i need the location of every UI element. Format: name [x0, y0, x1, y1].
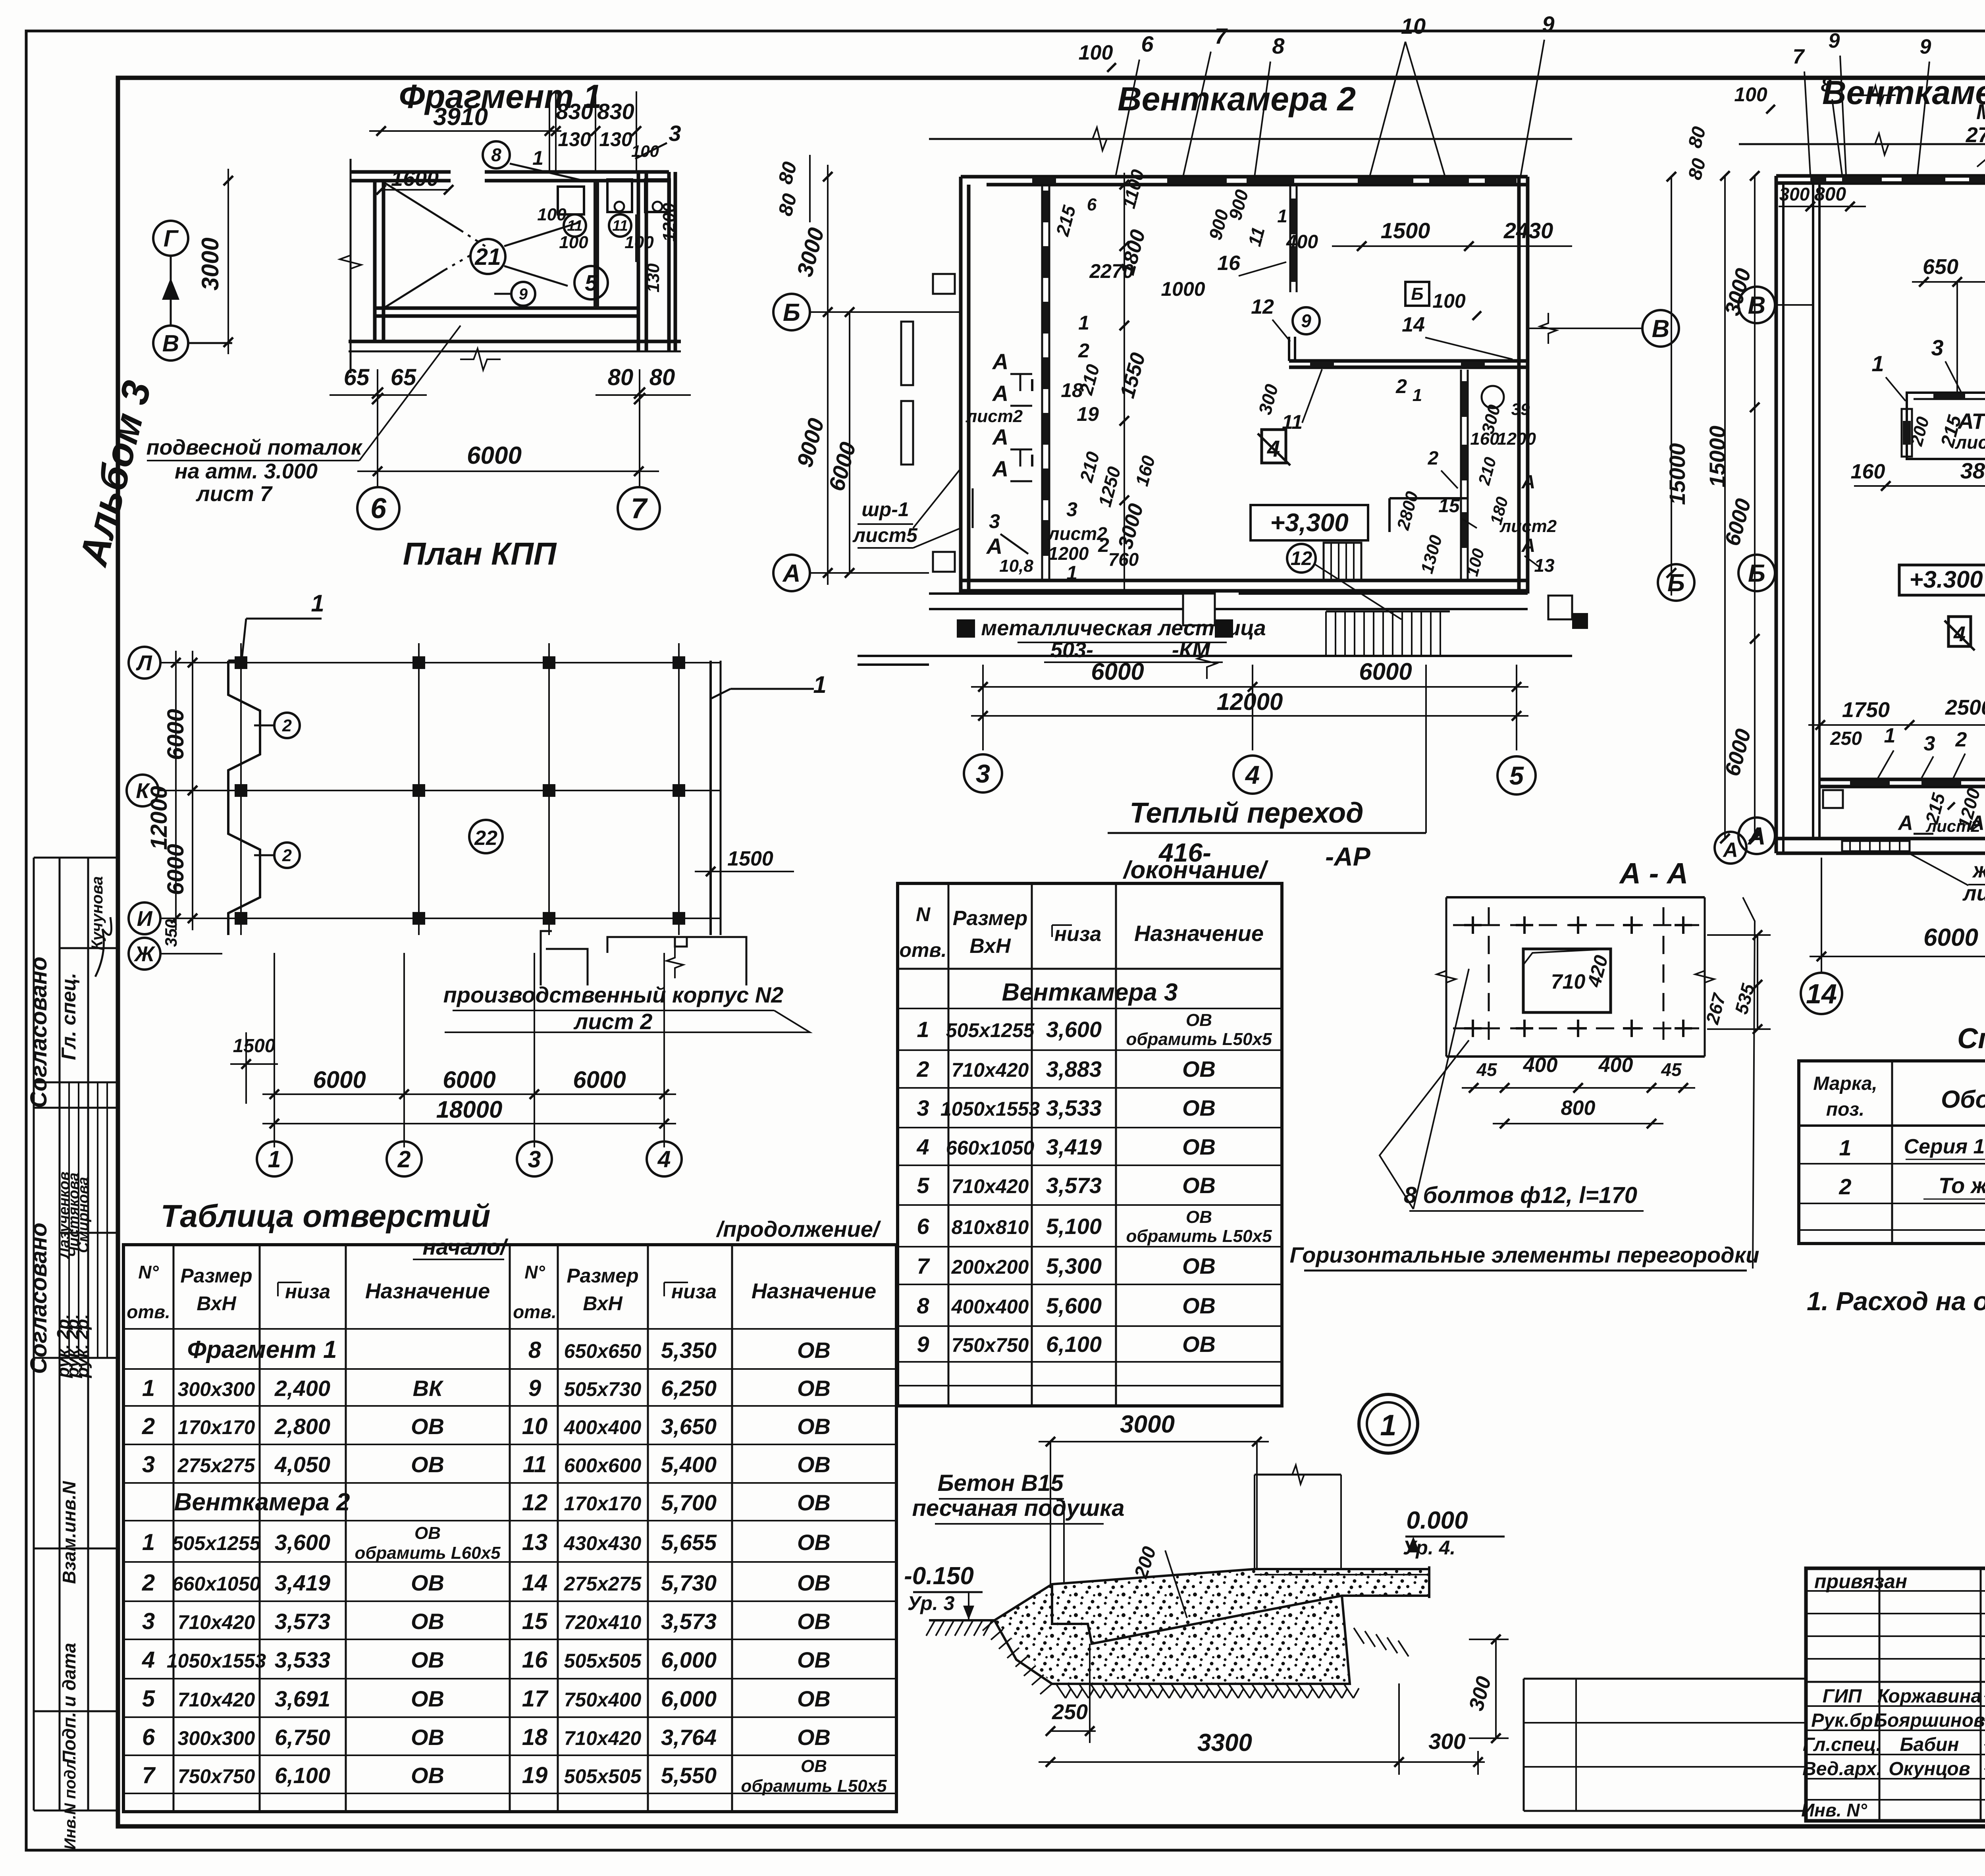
svg-text:Теплый переход: Теплый переход [1129, 797, 1363, 829]
svg-text:710х420: 710х420 [178, 1611, 255, 1633]
svg-text:Б: Б [1748, 560, 1765, 587]
svg-text:2430: 2430 [1503, 218, 1553, 243]
svg-text:2: 2 [1428, 448, 1439, 469]
svg-text:1200: 1200 [1048, 543, 1089, 564]
svg-text:1: 1 [1413, 386, 1422, 405]
svg-text:обрамить L50х5: обрамить L50х5 [1126, 1030, 1272, 1049]
foundation right soil hatch [1354, 1628, 1364, 1644]
VK2 dims 1500 2430 [1332, 245, 1572, 247]
svg-text:5,400: 5,400 [661, 1452, 717, 1477]
svg-text:3: 3 [917, 1095, 929, 1120]
svg-text:3,883: 3,883 [1046, 1057, 1102, 1082]
svg-text:Бояршинов: Бояршинов [1874, 1710, 1985, 1731]
svg-text:начало/: начало/ [422, 1234, 509, 1259]
svg-text:лист2: лист2 [966, 407, 1023, 426]
Plan KPP column squares [235, 656, 247, 669]
VK2 left wall [959, 177, 963, 594]
svg-text:11: 11 [523, 1452, 547, 1477]
VK2 axis В right [1642, 310, 1679, 347]
svg-text:на атм. 3.000: на атм. 3.000 [175, 459, 318, 483]
middle table grid [898, 883, 1282, 1406]
svg-text:ВхН: ВхН [583, 1292, 622, 1315]
svg-text:Инв. N°: Инв. N° [1801, 1800, 1867, 1820]
svg-text:8: 8 [917, 1293, 929, 1318]
svg-text:лист 6: лист 6 [1962, 881, 1985, 905]
svg-text:песчаная подушка: песчаная подушка [912, 1495, 1125, 1521]
svg-text:1500: 1500 [233, 1035, 276, 1057]
svg-text:15000: 15000 [1705, 426, 1730, 488]
svg-text:ОВ: ОВ [411, 1763, 444, 1788]
VK2 right outer wall boxes [1548, 596, 1572, 619]
svg-text:В: В [1748, 292, 1766, 319]
svg-text:1600: 1600 [391, 167, 439, 191]
svg-text:Венткамера 2: Венткамера 2 [1118, 80, 1356, 118]
svg-text:750х400: 750х400 [564, 1689, 642, 1711]
svg-text:8: 8 [1272, 33, 1285, 58]
svg-text:0.000: 0.000 [1406, 1507, 1468, 1534]
svg-text:Гл. спец.: Гл. спец. [58, 973, 80, 1060]
Plan KPP dim 1500 right [695, 871, 794, 872]
svg-text:4: 4 [657, 1146, 671, 1172]
VK2 left axis dim chain [827, 165, 829, 324]
svg-text:12000: 12000 [1217, 688, 1283, 715]
svg-text:300: 300 [1428, 1729, 1465, 1754]
svg-text:Венткамера 3: Венткамера 3 [1822, 74, 1985, 111]
svg-text:710х420: 710х420 [952, 1059, 1029, 1081]
svg-text:2: 2 [142, 1570, 155, 1596]
Fragment1 circle 21 [470, 239, 505, 274]
svg-text:1500: 1500 [1381, 218, 1430, 243]
svg-text:11: 11 [612, 218, 628, 234]
left margin stamp strip [33, 858, 35, 1810]
svg-text:5,300: 5,300 [1046, 1253, 1102, 1278]
Plan KPP axis lines up [274, 953, 275, 1068]
svg-text:Размер: Размер [567, 1265, 638, 1287]
svg-text:-АР: -АР [1325, 842, 1371, 871]
svg-text:ОВ: ОВ [411, 1570, 444, 1595]
svg-text:Вед.арх.: Вед.арх. [1802, 1758, 1882, 1780]
svg-text:Бетон В15: Бетон В15 [937, 1470, 1064, 1496]
svg-text:1: 1 [1871, 351, 1884, 376]
svg-text:ОВ: ОВ [1182, 1293, 1216, 1318]
svg-text:10: 10 [522, 1413, 548, 1439]
svg-text:ОВ: ОВ [411, 1686, 444, 1711]
svg-text:ОВ: ОВ [797, 1338, 831, 1363]
svg-text:130: 130 [599, 128, 632, 150]
svg-text:6000: 6000 [313, 1066, 366, 1093]
svg-text:1: 1 [1884, 724, 1896, 747]
svg-text:170х170: 170х170 [564, 1492, 642, 1515]
svg-text:17: 17 [522, 1686, 549, 1712]
svg-text:2: 2 [1098, 534, 1109, 556]
svg-text:А - А: А - А [1619, 857, 1688, 890]
VK3 top wall [1776, 174, 1985, 178]
VK2 stairs small top [1324, 543, 1361, 580]
svg-text:План КПП: План КПП [403, 536, 557, 571]
svg-text:18: 18 [522, 1724, 548, 1750]
Plan KPP grid horizontal lines [160, 662, 721, 663]
A-A axis circle A top [1715, 832, 1746, 864]
svg-text:170х170: 170х170 [178, 1416, 255, 1438]
node circle 1 [1359, 1394, 1418, 1453]
svg-text:низа: низа [671, 1280, 717, 1303]
svg-text:5,600: 5,600 [1046, 1293, 1102, 1318]
svg-text:Венткамера 2: Венткамера 2 [174, 1488, 350, 1516]
svg-text:В: В [162, 330, 179, 357]
svg-text:6,250: 6,250 [661, 1376, 717, 1401]
svg-text:1500: 1500 [727, 847, 773, 870]
VK3 dim 650 2850 [1912, 281, 1985, 283]
svg-text:100: 100 [1734, 83, 1767, 106]
svg-text:5,730: 5,730 [661, 1570, 717, 1595]
svg-text:830: 830 [597, 99, 634, 124]
svg-text:/продолжение/: /продолжение/ [716, 1217, 881, 1242]
svg-text:3,419: 3,419 [1046, 1134, 1102, 1159]
VK3 axes 14 15 bottom [1821, 858, 1822, 972]
svg-text:1: 1 [917, 1017, 929, 1042]
VK2 axis circles 3 4 5 [964, 754, 1002, 792]
VK2 bottom wall [961, 579, 1528, 582]
svg-text:710х420: 710х420 [178, 1689, 255, 1711]
svg-text:3,573: 3,573 [661, 1609, 717, 1634]
VK2 circle 9 [1293, 307, 1320, 334]
svg-text:3,691: 3,691 [275, 1686, 330, 1711]
VK2 wall boxes on left exterior [933, 274, 955, 294]
VK2 inner partition hatched left [1041, 185, 1043, 580]
A-A inner opening rect [1523, 949, 1611, 1012]
foundation soil hatch bottom [1056, 1684, 1066, 1698]
VK3 dim 160 3800 [1854, 485, 1985, 487]
svg-text:ВхН: ВхН [197, 1292, 236, 1315]
svg-text:3000: 3000 [197, 237, 224, 290]
svg-text:ОВ: ОВ [797, 1686, 831, 1711]
svg-text:505х1255: 505х1255 [946, 1019, 1035, 1041]
svg-text:А: А [992, 424, 1008, 449]
svg-text:130: 130 [644, 263, 663, 293]
title block main outline [1806, 1568, 1985, 1821]
svg-text:80: 80 [608, 364, 634, 390]
svg-text:100: 100 [624, 233, 654, 252]
svg-text:7: 7 [1793, 45, 1805, 68]
svg-text:45: 45 [1476, 1059, 1497, 1080]
svg-text:привязан: привязан [1814, 1570, 1907, 1593]
svg-text:обрамить L50х5: обрамить L50х5 [1126, 1226, 1272, 1246]
svg-text:3,764: 3,764 [661, 1725, 717, 1750]
svg-text:А: А [992, 381, 1008, 406]
svg-text:Инв.N подл.: Инв.N подл. [62, 1755, 79, 1850]
svg-text:1: 1 [813, 671, 826, 698]
svg-text:10,8: 10,8 [999, 556, 1033, 576]
svg-text:5: 5 [917, 1173, 929, 1198]
VK2 top wall opening marks [1032, 177, 1056, 184]
svg-text:Л: Л [135, 651, 152, 675]
Fragment1 leader 3 [635, 143, 667, 159]
svg-text:7: 7 [917, 1253, 930, 1278]
VK2 box Б [1405, 282, 1429, 306]
Fragment1 partition hatched [594, 181, 599, 308]
svg-text:отв.: отв. [513, 1301, 557, 1322]
svg-text:В: В [1652, 315, 1670, 343]
svg-text:5,350: 5,350 [661, 1338, 717, 1363]
Plan KPP axis circle И [129, 902, 160, 934]
Fragment1 circle 9 [511, 282, 535, 306]
svg-text:2,400: 2,400 [274, 1376, 330, 1401]
svg-text:750х750: 750х750 [952, 1334, 1029, 1356]
svg-text:13: 13 [522, 1529, 548, 1555]
A-A dashed inner lines [1453, 924, 1699, 926]
svg-text:1000: 1000 [1161, 278, 1205, 300]
svg-text:650х650: 650х650 [564, 1340, 642, 1362]
svg-text:3910: 3910 [433, 103, 488, 131]
svg-text:5: 5 [142, 1686, 155, 1712]
svg-text:130: 130 [558, 128, 591, 150]
svg-text:100: 100 [537, 205, 567, 224]
svg-text:14: 14 [1402, 313, 1425, 336]
svg-text:ОВ: ОВ [797, 1376, 831, 1401]
svg-text:15: 15 [522, 1608, 548, 1634]
svg-text:5: 5 [585, 270, 598, 296]
svg-text:Горизонтальные элементы перего: Горизонтальные элементы перегородки [1290, 1242, 1760, 1267]
svg-text:3,600: 3,600 [1046, 1017, 1102, 1042]
svg-text:5,700: 5,700 [661, 1490, 717, 1515]
svg-text:400: 400 [1598, 1054, 1633, 1077]
svg-text:жр-1: жр-1 [1972, 858, 1985, 882]
svg-text:N°: N° [138, 1262, 159, 1282]
svg-text:6000: 6000 [1359, 658, 1412, 685]
svg-text:ОВ: ОВ [411, 1414, 444, 1439]
svg-text:Размер: Размер [180, 1265, 252, 1287]
svg-text:1: 1 [1078, 312, 1089, 334]
svg-text:5,100: 5,100 [1046, 1214, 1102, 1239]
svg-text:4,050: 4,050 [274, 1452, 330, 1477]
Fragment1 dim 6000 axes 6 7 [357, 470, 659, 472]
VK3 bottom left boxes [1823, 790, 1843, 808]
svg-text:N: N [916, 903, 931, 925]
svg-text:300х300: 300х300 [178, 1378, 255, 1400]
svg-text:760: 760 [1108, 549, 1139, 570]
Plan KPP vertical column lines [240, 643, 242, 935]
Plan KPP circle 22 center [469, 820, 503, 853]
svg-text:8: 8 [491, 145, 501, 165]
svg-text:Взам.инв.N: Взам.инв.N [59, 1481, 79, 1584]
svg-text:ГИП: ГИП [1823, 1686, 1862, 1707]
svg-text:обрамить L50х5: обрамить L50х5 [741, 1776, 887, 1796]
svg-text:3: 3 [976, 759, 990, 788]
Plan KPP axis circles 1 2 3 4 [257, 1141, 292, 1176]
svg-text:Размер: Размер [953, 907, 1028, 930]
svg-text:9: 9 [519, 285, 528, 303]
svg-text:2500: 2500 [1945, 696, 1985, 719]
svg-text:А: А [1722, 839, 1738, 862]
svg-text:660х1050: 660х1050 [172, 1573, 261, 1595]
VK2 door circle right [1482, 386, 1504, 408]
svg-text:Б: Б [1667, 569, 1685, 597]
svg-text:100: 100 [1079, 41, 1113, 64]
svg-text:10: 10 [1401, 13, 1426, 39]
VK3 top outer line [1739, 143, 1985, 145]
svg-text:15: 15 [1438, 496, 1460, 517]
svg-text:А: А [992, 456, 1008, 481]
svg-text:505х505: 505х505 [564, 1650, 642, 1672]
svg-text:Серия 1.038.1-1, вып. 1: Серия 1.038.1-1, вып. 1 [1904, 1135, 1985, 1158]
svg-text:22: 22 [474, 827, 497, 850]
svg-text:65: 65 [344, 364, 370, 390]
svg-text:45: 45 [1661, 1059, 1682, 1080]
Fragment1 dim 1600 [381, 189, 449, 191]
VK2 top middle partition hatched [1289, 185, 1291, 292]
svg-text:Б: Б [1411, 284, 1423, 304]
svg-text:3,533: 3,533 [1046, 1095, 1102, 1120]
svg-text:отв.: отв. [127, 1301, 170, 1322]
svg-text:2: 2 [1395, 375, 1407, 397]
svg-text:160: 160 [1470, 429, 1499, 449]
svg-text:обрамить L60х5: обрамить L60х5 [355, 1543, 501, 1563]
svg-text:275х275: 275х275 [564, 1573, 642, 1595]
svg-text:6000: 6000 [467, 442, 522, 469]
foundation dim 3000 [1039, 1441, 1269, 1442]
svg-text:ОВ: ОВ [797, 1647, 831, 1672]
svg-text:9: 9 [528, 1375, 541, 1401]
svg-text:лист2: лист2 [1499, 517, 1557, 536]
svg-text:830: 830 [556, 99, 593, 124]
svg-text:ОВ: ОВ [411, 1647, 444, 1672]
svg-text:ОВ: ОВ [411, 1452, 444, 1477]
svg-text:ОВ: ОВ [1182, 1332, 1216, 1357]
foundation slab top thin line [1255, 1574, 1427, 1575]
svg-text:ОВ: ОВ [797, 1725, 831, 1750]
svg-text:N°: N° [524, 1262, 545, 1282]
VK2 flag 4 [1262, 430, 1286, 463]
svg-text:Фрагмент 1: Фрагмент 1 [187, 1336, 337, 1363]
svg-text:3,650: 3,650 [661, 1414, 717, 1439]
svg-text:250: 250 [1052, 1700, 1088, 1724]
svg-text:А: А [992, 349, 1008, 374]
svg-text:810х810: 810х810 [952, 1216, 1029, 1238]
svg-text:А: А [1521, 535, 1536, 556]
specification grid [1799, 1061, 1985, 1244]
svg-text:9: 9 [1920, 35, 1931, 58]
svg-text:12: 12 [1291, 548, 1312, 569]
VK3 axis circles В Б А [1738, 287, 1775, 323]
svg-text:7: 7 [142, 1762, 156, 1788]
Fragment1 circles 11 11 [564, 214, 586, 237]
svg-text:Б: Б [783, 299, 800, 326]
Fragment1 circle 5 [574, 266, 608, 299]
svg-text:9: 9 [1301, 310, 1311, 331]
svg-text:1: 1 [1277, 206, 1287, 226]
Plan KPP leader 1 top [246, 618, 322, 620]
svg-text:710х420: 710х420 [564, 1727, 642, 1749]
svg-text:300: 300 [1779, 184, 1810, 204]
Plan KPP circle 2 upper [274, 713, 300, 738]
svg-text:1050х1553: 1050х1553 [940, 1098, 1040, 1120]
svg-text:8: 8 [528, 1337, 542, 1363]
svg-text:9: 9 [917, 1332, 929, 1357]
svg-text:ОВ: ОВ [1186, 1010, 1212, 1030]
Plan KPP axis circle Ж [129, 938, 160, 970]
svg-text:710: 710 [1551, 970, 1586, 993]
svg-text:ОВ: ОВ [1186, 1207, 1212, 1227]
VK3 top wall openings [1810, 177, 1826, 183]
svg-text:720х410: 720х410 [564, 1611, 642, 1633]
svg-text:750х750: 750х750 [178, 1765, 255, 1787]
foundation soil hatch left bank [926, 1620, 935, 1636]
svg-text:350: 350 [162, 919, 180, 947]
svg-text:3: 3 [1931, 335, 1943, 360]
svg-text:6000: 6000 [443, 1066, 495, 1093]
svg-text:ВК: ВК [413, 1376, 444, 1401]
svg-text:5: 5 [1509, 761, 1524, 790]
Plan KPP left dims 6000 12000 6000 [192, 651, 193, 802]
svg-text:И: И [137, 907, 153, 931]
svg-text:800: 800 [1561, 1097, 1596, 1120]
VK2 bottom dim chain 6000 6000 12000 [982, 665, 984, 750]
svg-text:Коржавина: Коржавина [1877, 1686, 1981, 1707]
Plan KPP axis circle Л [129, 647, 160, 679]
svg-text:660х1050: 660х1050 [946, 1137, 1035, 1159]
svg-text:6000: 6000 [1923, 924, 1978, 951]
title block left attachment rows [1524, 1678, 1806, 1680]
svg-text:Смирнова: Смирнова [75, 1177, 92, 1253]
svg-text:100: 100 [559, 233, 588, 252]
left strip group 2 [34, 1357, 118, 1359]
svg-text:6000: 6000 [163, 844, 189, 895]
VK2 lower right room walls [1389, 497, 1468, 499]
Fragment1 top dim 3910 [369, 130, 561, 132]
svg-text:лист 2: лист 2 [573, 1009, 653, 1034]
A-A dims below [1462, 1087, 1695, 1089]
svg-text:39: 39 [1511, 400, 1530, 418]
svg-text:Обозначение: Обозначение [1941, 1086, 1985, 1113]
VK2 middle wall stub [1288, 337, 1290, 361]
svg-text:6: 6 [1087, 195, 1097, 214]
svg-text:2,800: 2,800 [274, 1414, 330, 1439]
svg-text:1050х1553: 1050х1553 [167, 1650, 266, 1672]
svg-text:2: 2 [916, 1057, 929, 1082]
svg-text:производственный корпус N2: производственный корпус N2 [443, 982, 784, 1007]
svg-text:ОВ: ОВ [411, 1609, 444, 1634]
svg-text:6,750: 6,750 [275, 1725, 330, 1750]
svg-text:2: 2 [142, 1413, 155, 1439]
big table grid [123, 1245, 896, 1812]
svg-text:Ж: Ж [133, 942, 156, 966]
svg-text:низа: низа [1054, 923, 1102, 946]
svg-text:400х400: 400х400 [564, 1416, 642, 1438]
Plan KPP right wall [709, 661, 712, 935]
title block left columns [1879, 1568, 1881, 1821]
svg-text:16: 16 [1217, 252, 1241, 275]
Fragment1 vert dim 3000 [227, 169, 229, 354]
VK2 right lower partition [1460, 370, 1462, 580]
svg-text:Назначение: Назначение [365, 1279, 490, 1303]
svg-text:505х1255: 505х1255 [172, 1532, 261, 1554]
svg-text:Марка,: Марка, [1813, 1073, 1877, 1094]
svg-text:3300: 3300 [1197, 1729, 1252, 1756]
Plan KPP axis circle К [127, 775, 158, 806]
foundation top break line right [1255, 1474, 1341, 1476]
svg-text:505х505: 505х505 [564, 1765, 642, 1787]
svg-text:Монтажный проем: Монтажный проем [1976, 100, 1985, 124]
Fragment1 walls [351, 170, 451, 174]
svg-text:ОВ: ОВ [801, 1756, 827, 1776]
svg-text:6000: 6000 [1091, 658, 1144, 685]
svg-text:А: А [1521, 472, 1536, 493]
svg-text:2: 2 [282, 846, 292, 865]
VK3 level +3.300 box [1899, 565, 1985, 595]
svg-text:21: 21 [474, 244, 501, 270]
svg-text:Согласовано: Согласовано [26, 956, 52, 1108]
VK3 flag 4 [1948, 617, 1971, 646]
